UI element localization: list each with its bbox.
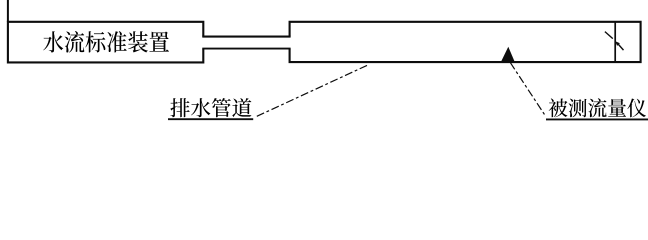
neck pipe bottom wire: [202, 48, 290, 50]
neck pipe top wire: [202, 36, 290, 38]
flow meter plate line: [614, 22, 616, 62]
sensor position triangle marker: [501, 47, 514, 62]
inlet pipe stub line: [7, 0, 9, 22]
label 被测流量仪: [549, 98, 646, 117]
label 水流标准装置: [43, 31, 169, 53]
meter pointer arrowhead: [615, 41, 620, 46]
meter pointer upper dash: [605, 32, 613, 39]
meter pointer lower dash: [618, 44, 623, 50]
label 排水管道: [170, 98, 251, 117]
underline of 被测流量仪: [546, 118, 648, 120]
leader line to 被测流量仪: [510, 63, 545, 116]
leader line to 排水管道: [256, 65, 367, 116]
tank: water flow standard device box: [8, 22, 203, 63]
main drain pipe outline: [290, 22, 641, 62]
underline of 排水管道: [168, 118, 253, 120]
